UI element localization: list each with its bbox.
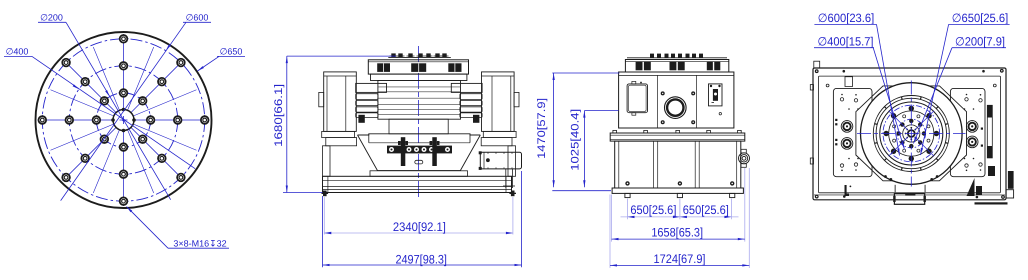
view4 ring r22.6	[889, 111, 934, 156]
view3 feet	[625, 193, 735, 197]
view1 bolt circle d200	[96, 93, 150, 147]
view2 left fin stack	[356, 83, 387, 117]
view4 top-left tab	[814, 61, 820, 68]
view3 porthole bolts	[661, 91, 696, 124]
view3 bottom ext	[552, 190, 611, 192]
view1 center bore	[111, 108, 136, 133]
view2 dim 2497	[323, 171, 522, 267]
view2 base slab	[323, 176, 512, 192]
view4 left bracket	[845, 77, 853, 87]
view4 label d600	[814, 11, 899, 156]
view2 right fin stack	[451, 83, 482, 117]
view4 bolt circle d600 blue	[883, 105, 940, 162]
view2 head band	[371, 74, 467, 80]
view2 top bolt strip	[388, 53, 451, 57]
view1 label 3x8-M16 depth32	[127, 207, 230, 249]
view2 dim 1680	[273, 56, 396, 192]
view4 left edge blocks	[810, 85, 813, 90]
svg-text:∅650: ∅650	[220, 47, 243, 57]
view1 bolt circle d400	[69, 66, 177, 174]
view4 bolt dots outer	[884, 106, 940, 162]
svg-text:3×8-M16↧32: 3×8-M16↧32	[173, 239, 226, 249]
svg-text:1658[65.3]: 1658[65.3]	[651, 226, 703, 240]
view3 dim 1470	[536, 73, 619, 187]
view4 left wing plate	[833, 88, 872, 176]
view4 ring r31.5	[880, 102, 943, 165]
svg-text:650[25.6]: 650[25.6]	[683, 203, 729, 217]
view2 left column	[323, 146, 331, 177]
svg-text:∅200: ∅200	[40, 13, 63, 23]
view3 base box	[615, 141, 741, 188]
view2 dim 2340	[324, 197, 513, 235]
view1 label d400	[4, 47, 195, 169]
view4 boss octagon	[856, 86, 967, 181]
view2 head body	[378, 81, 461, 120]
svg-text:∅400: ∅400	[6, 47, 29, 57]
view4 right wing plate	[950, 88, 985, 176]
svg-text:∅200[7.9]: ∅200[7.9]	[955, 34, 1005, 48]
view4 small holes mid	[826, 84, 829, 87]
view4 frame inner	[819, 76, 1001, 193]
svg-text:1724[67.9]: 1724[67.9]	[654, 252, 706, 266]
svg-text:2340[92.1]: 2340[92.1]	[393, 220, 446, 234]
view4 bolt dots inner	[897, 119, 927, 149]
view4 housing circle	[861, 83, 963, 185]
view4 label d650	[921, 11, 1010, 155]
view1 label d650	[198, 47, 246, 72]
view4 right rail	[987, 105, 992, 158]
view3 dim 1025	[569, 109, 618, 188]
view2 tower pedestals	[326, 138, 357, 146]
view4 label d200	[914, 34, 1007, 143]
view1 bolt holes 3x8-M16	[39, 35, 209, 205]
view4 ring r38	[873, 96, 949, 172]
view2 left tower	[319, 72, 365, 131]
view4 bottom-right corner wedge	[967, 178, 983, 196]
view4 small holes r18.6	[893, 115, 930, 152]
view4 right attachment	[975, 166, 1014, 205]
view3 door	[627, 81, 647, 115]
view1 label d200	[38, 13, 171, 200]
svg-text:∅600[23.6]: ∅600[23.6]	[818, 11, 875, 25]
view2 center line	[418, 46, 420, 200]
view2 right tower	[473, 72, 519, 131]
view3 flange	[610, 130, 745, 141]
svg-text:1680[66.1]: 1680[66.1]	[273, 84, 285, 147]
view2 clamp row	[387, 137, 452, 166]
view1 bolt circle d600	[42, 39, 204, 201]
view4 center lines	[857, 81, 966, 187]
view3 dim 1658	[612, 168, 745, 242]
svg-text:2497[98.3]: 2497[98.3]	[395, 253, 447, 267]
view2 foot bolts	[322, 191, 517, 197]
view3 porthole	[665, 97, 687, 119]
view4 corner screws	[815, 69, 1005, 199]
view3 dim 1724	[610, 168, 749, 268]
svg-text:1025[40.4]: 1025[40.4]	[569, 109, 581, 171]
view2 tower feet	[322, 131, 355, 137]
view3 side knob	[739, 149, 750, 167]
view2 motor box	[479, 151, 522, 188]
view1 table outer circle d650	[36, 32, 212, 208]
view3 top plate	[625, 60, 728, 73]
view4 frame outer	[813, 68, 1006, 200]
view1 radial center lines	[38, 34, 210, 206]
view4 ring r35	[875, 97, 948, 170]
view4 center bore	[903, 125, 920, 142]
view4 bottom-left corner clip	[845, 185, 852, 196]
view2 cradle	[358, 119, 481, 176]
view4 bottom tab	[893, 185, 926, 204]
view2 top plate	[368, 60, 468, 74]
svg-text:650[25.6]: 650[25.6]	[630, 203, 676, 217]
svg-text:∅650[25.6]: ∅650[25.6]	[952, 11, 1009, 25]
svg-text:∅600: ∅600	[186, 13, 209, 23]
view2 right column	[508, 146, 516, 177]
view1 label d600	[61, 13, 211, 201]
view4 bolt circle inner blue	[897, 119, 926, 148]
view4 frame bottom line	[814, 194, 1005, 196]
view4 label d400	[814, 34, 905, 149]
view3 top bolt strip	[627, 54, 727, 58]
view3 main box	[619, 72, 734, 128]
view3 control panel	[709, 84, 723, 115]
svg-text:1470[57.9]: 1470[57.9]	[536, 98, 548, 159]
view3 base plate	[612, 188, 743, 193]
svg-text:∅400[15.7]: ∅400[15.7]	[818, 34, 874, 48]
view4 circle rim nubs	[884, 175, 939, 181]
view3 dim 650 650	[621, 199, 739, 220]
